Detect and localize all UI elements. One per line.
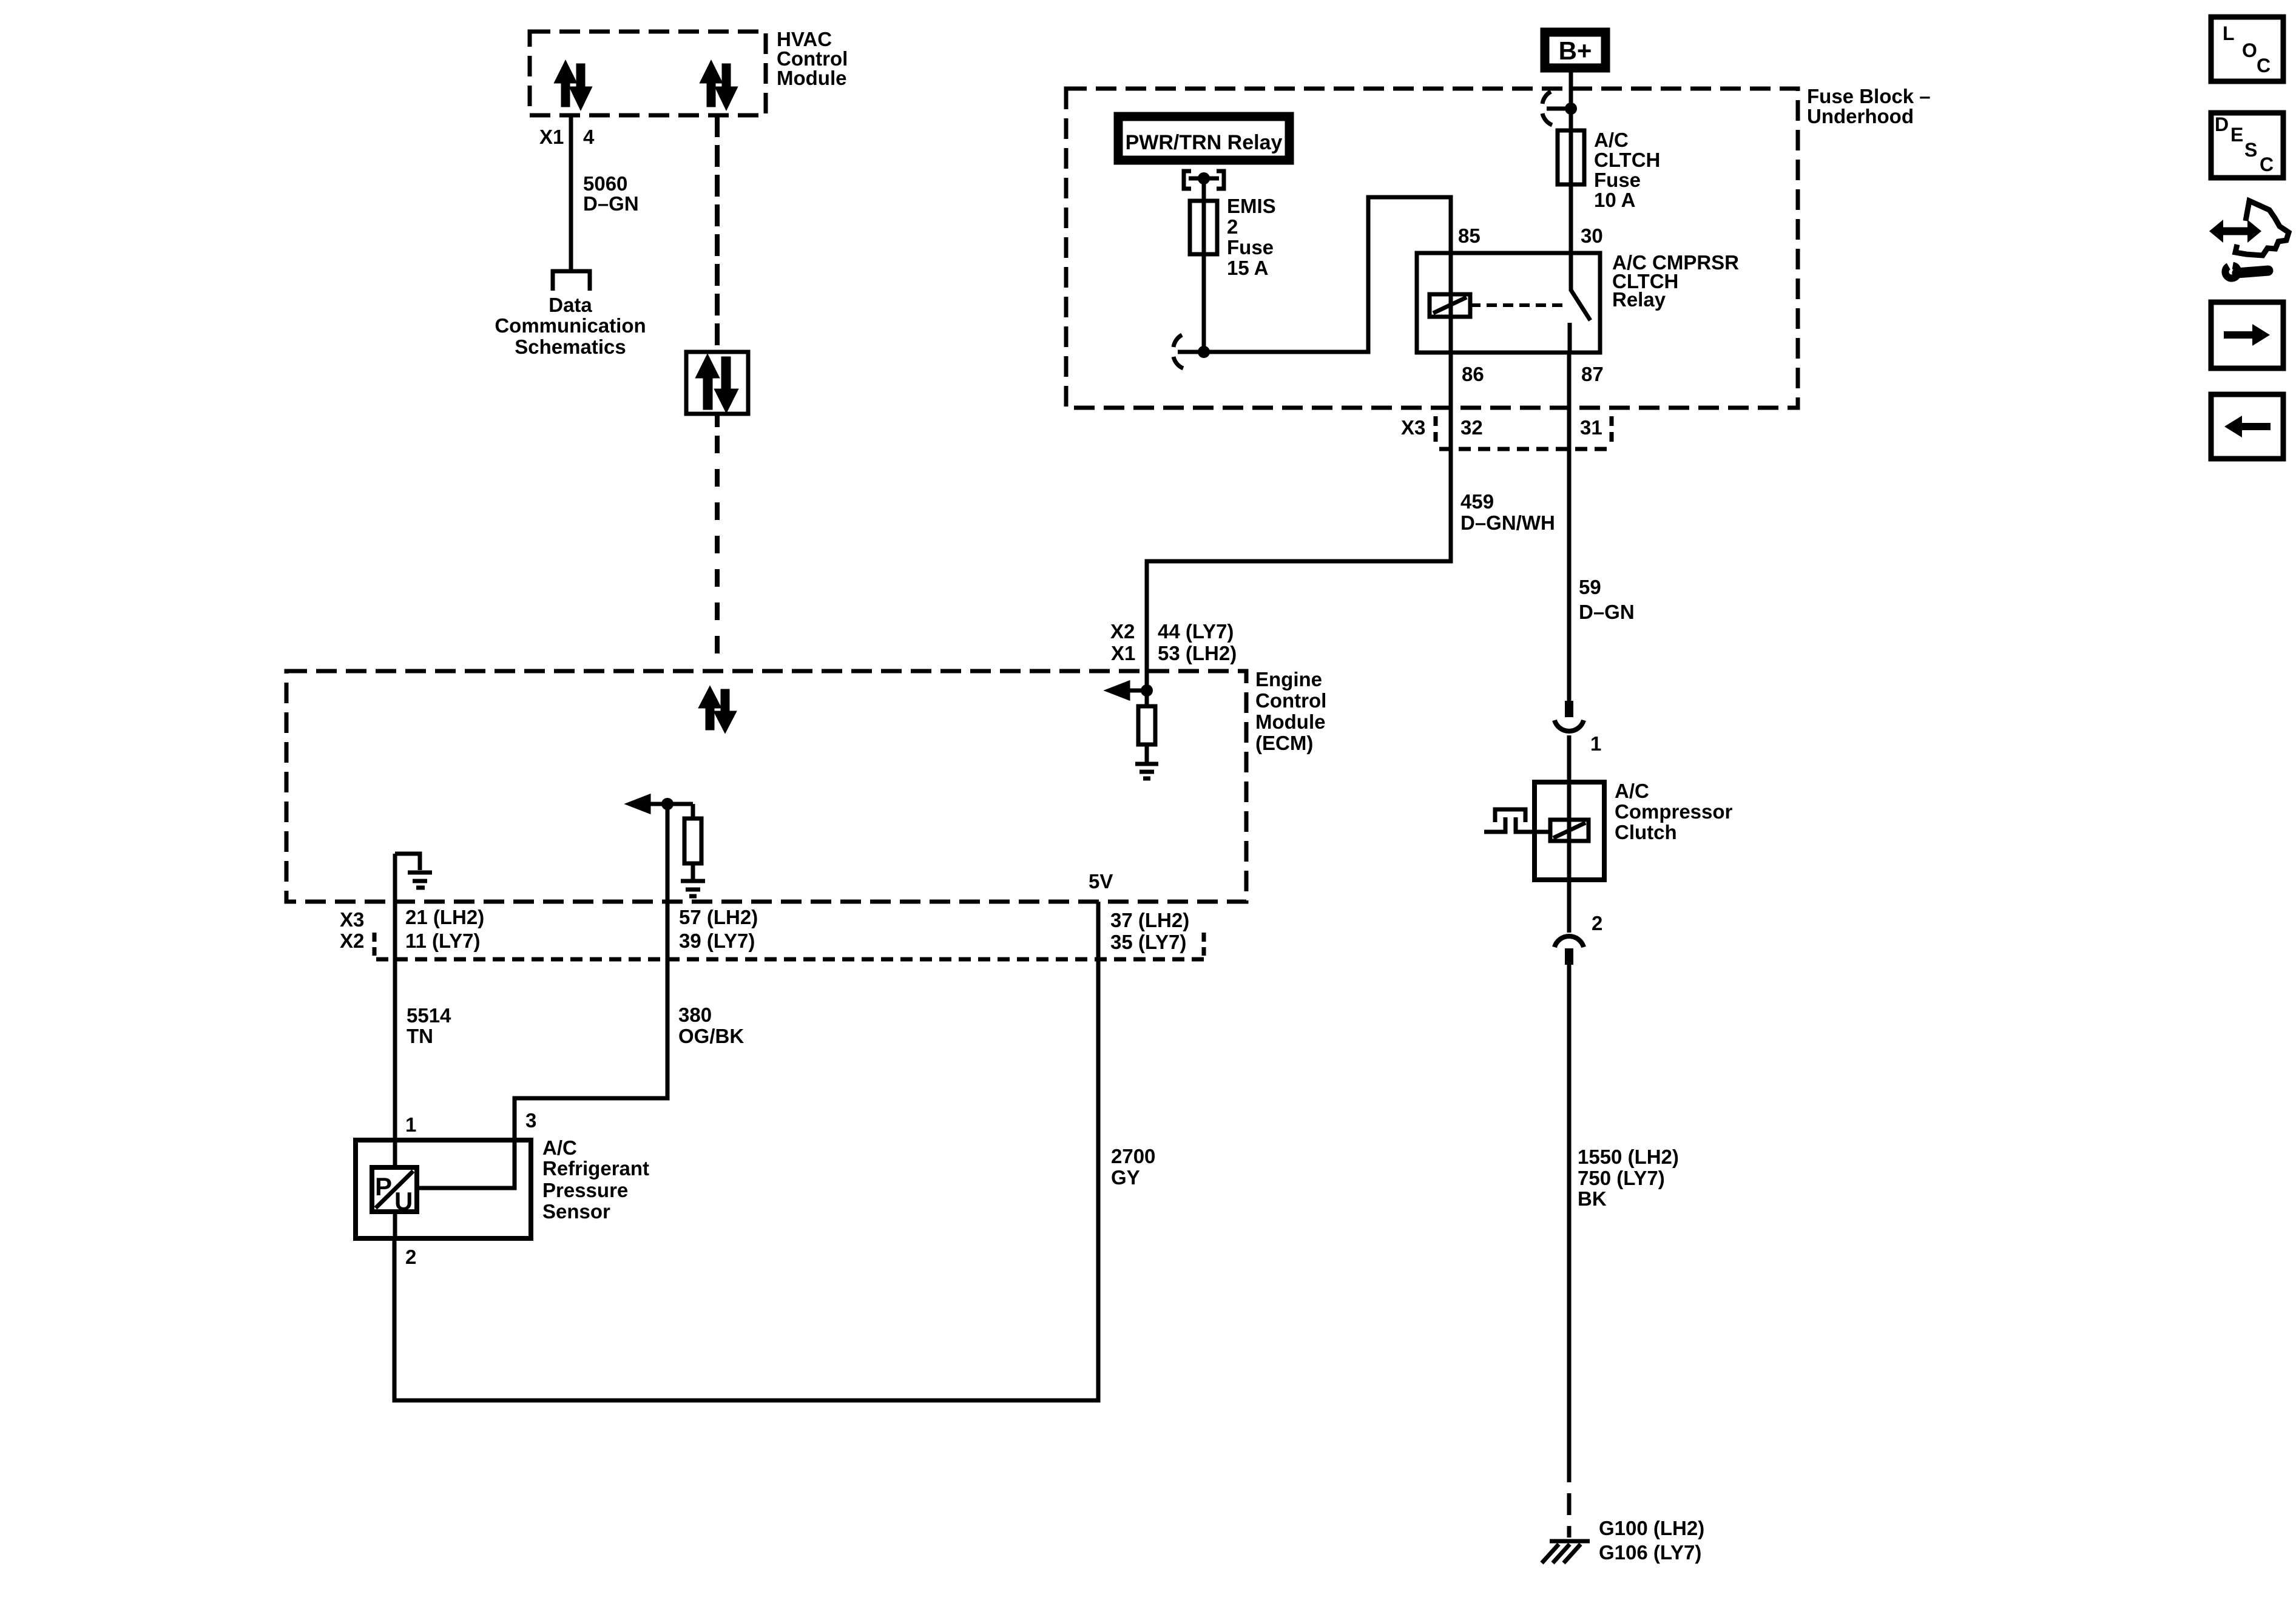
A/C CMPRSR CLTCH Relay box <box>1417 253 1600 353</box>
svg-text:GY: GY <box>1111 1166 1140 1189</box>
Fuse Block - Underhood box <box>1066 89 1798 408</box>
svg-text:BK: BK <box>1578 1187 1607 1210</box>
svg-text:21 (LH2): 21 (LH2) <box>405 906 484 928</box>
fuse A/C CLTCH 10A <box>1558 130 1584 184</box>
svg-text:OG/BK: OG/BK <box>678 1025 744 1047</box>
ECM input arrow and junction (pin 57/39) <box>637 802 693 806</box>
svg-text:2700: 2700 <box>1111 1145 1155 1167</box>
svg-text:D: D <box>2215 113 2229 135</box>
icon previous page box <box>2211 394 2283 459</box>
svg-text:Pressure: Pressure <box>542 1179 628 1201</box>
svg-text:31: 31 <box>1580 416 1602 439</box>
svg-text:32: 32 <box>1460 416 1483 439</box>
icon LOC box <box>2211 17 2283 81</box>
wire 5060 (HVAC X1-4 to data link) <box>569 115 573 269</box>
svg-text:459: 459 <box>1460 490 1494 513</box>
serial data bus (dashed, HVAC to splice box) <box>715 115 720 352</box>
wire B+ to A/C CLTCH fuse and pin 30 <box>1569 72 1573 253</box>
svg-text:Sensor: Sensor <box>542 1200 610 1223</box>
fuse EMIS 2 15A <box>1190 201 1217 254</box>
svg-text:Clutch: Clutch <box>1615 821 1677 843</box>
icon harness double arrow <box>2221 228 2250 235</box>
serial data bus (dashed, splice box to ECM) <box>715 414 720 427</box>
svg-text:1550 (LH2): 1550 (LH2) <box>1578 1146 1679 1168</box>
Engine Control Module box <box>286 671 1246 902</box>
fuse holder terminals (EMIS 2 fuse) <box>1184 171 1191 189</box>
PWR/TRN Relay box <box>1118 116 1289 160</box>
svg-text:Relay: Relay <box>1612 288 1666 311</box>
svg-text:G100 (LH2): G100 (LH2) <box>1599 1517 1704 1539</box>
svg-text:2: 2 <box>1227 215 1238 238</box>
svg-text:A/C: A/C <box>1594 129 1629 151</box>
svg-text:L: L <box>2223 22 2235 44</box>
svg-text:Compressor: Compressor <box>1615 800 1733 823</box>
svg-text:X1: X1 <box>539 126 564 148</box>
relay actuating link (dashed) <box>1470 303 1563 307</box>
wire PWR/TRN relay through EMIS fuse <box>1202 178 1206 352</box>
wire EMIS fuse to relay coil pin 85 <box>1204 197 1451 352</box>
pressure transducer P/U <box>372 1167 417 1212</box>
ECM internal ground (pin 57/39 path) <box>681 879 705 883</box>
svg-text:44 (LY7): 44 (LY7) <box>1158 620 1234 643</box>
svg-text:PWR/TRN Relay: PWR/TRN Relay <box>1126 131 1283 154</box>
svg-text:2: 2 <box>405 1246 416 1268</box>
serial data splice box <box>686 352 748 414</box>
relay coil (pin 85 to 86) <box>1449 253 1453 353</box>
svg-text:Schematics: Schematics <box>515 336 626 358</box>
ECM internal ground (pin 44/53 path) <box>1135 762 1158 766</box>
serial data arrow pair (HVAC right) <box>703 64 735 106</box>
svg-text:750 (LY7): 750 (LY7) <box>1578 1167 1665 1189</box>
svg-text:P: P <box>375 1172 392 1201</box>
ECM bias resistor (pin 57/39) <box>691 804 695 819</box>
svg-text:Fuse: Fuse <box>1227 236 1274 258</box>
svg-text:35 (LY7): 35 (LY7) <box>1110 931 1186 953</box>
svg-text:A/C: A/C <box>542 1136 577 1159</box>
svg-text:Module: Module <box>777 67 846 89</box>
svg-text:30: 30 <box>1581 224 1603 247</box>
icon wrench <box>2237 271 2268 273</box>
svg-text:D–GN: D–GN <box>583 192 639 215</box>
compressor in-line connector pin 2 <box>1567 880 1572 933</box>
svg-text:CLTCH: CLTCH <box>1594 149 1660 171</box>
svg-text:10 A: 10 A <box>1594 189 1635 211</box>
ECM pull-up resistor (pin 44/53) <box>1145 690 1149 706</box>
svg-text:11 (LY7): 11 (LY7) <box>405 930 481 952</box>
B+ terminal <box>1545 32 1606 68</box>
svg-text:B+: B+ <box>1559 36 1592 65</box>
serial data arrow pair (ECM) <box>701 690 734 729</box>
svg-text:380: 380 <box>678 1004 712 1026</box>
svg-text:Module: Module <box>1255 711 1325 733</box>
wire 5514 TN (ECM 21/11 to sensor pin 1) <box>393 854 397 1140</box>
ECM internal ground (pin 21/11 path) <box>395 854 420 870</box>
svg-text:O: O <box>2242 39 2257 61</box>
svg-text:C: C <box>2260 154 2274 175</box>
svg-text:87: 87 <box>1581 363 1604 385</box>
svg-text:Data: Data <box>549 294 592 316</box>
off-page reference bracket (Data Communication Schematics) <box>553 271 590 291</box>
svg-text:Fuse: Fuse <box>1594 169 1641 191</box>
HVAC Control Module box <box>530 32 766 115</box>
svg-text:D–GN/WH: D–GN/WH <box>1460 511 1555 534</box>
relay switch blade (pin 30 to 87) <box>1571 253 1590 320</box>
svg-text:57 (LH2): 57 (LH2) <box>679 906 758 928</box>
svg-text:D–GN: D–GN <box>1579 601 1635 623</box>
svg-text:5060: 5060 <box>583 172 627 195</box>
svg-text:Engine: Engine <box>1255 668 1322 690</box>
ground-side in-line connector (EMIS branch) <box>1178 350 1204 354</box>
icon next page box <box>2211 302 2283 368</box>
svg-text:G106 (LY7): G106 (LY7) <box>1599 1541 1701 1564</box>
wire 380 OG/BK (ECM 57/39 to sensor pin 3) <box>515 804 667 1140</box>
svg-text:X3: X3 <box>340 908 364 931</box>
A/C Refrigerant Pressure Sensor box <box>356 1140 531 1238</box>
svg-text:X1: X1 <box>1111 642 1135 664</box>
battery feed in-line connector <box>1547 107 1571 111</box>
svg-text:5V: 5V <box>1089 870 1113 893</box>
A/C Compressor Clutch box <box>1535 782 1604 880</box>
svg-text:37 (LH2): 37 (LH2) <box>1110 909 1189 931</box>
icon DESC box <box>2211 113 2283 178</box>
svg-text:2: 2 <box>1592 912 1602 934</box>
clutch mechanical coupling symbol <box>1484 817 1505 832</box>
svg-text:59: 59 <box>1579 576 1601 598</box>
svg-text:X2: X2 <box>1110 620 1135 643</box>
wire 59 D-GN (relay 87 to compressor pin 1) <box>1567 353 1572 701</box>
svg-text:5514: 5514 <box>407 1004 451 1027</box>
X3 connector (fuse block outputs) <box>1434 416 1438 443</box>
serial data arrow pair (HVAC left) <box>557 64 589 106</box>
svg-text:Fuse Block –: Fuse Block – <box>1807 85 1931 107</box>
svg-text:X3: X3 <box>1401 416 1425 439</box>
svg-text:(ECM): (ECM) <box>1255 732 1313 754</box>
ECM input arrow and junction (pin 44/53) <box>1116 689 1147 693</box>
svg-text:A/C: A/C <box>1615 780 1649 802</box>
svg-text:3: 3 <box>525 1109 536 1132</box>
svg-text:TN: TN <box>407 1025 433 1047</box>
svg-text:15 A: 15 A <box>1227 257 1268 279</box>
wire 2700 GY (ECM 37/35 to sensor pin 2) <box>394 902 1098 1400</box>
compressor clutch coil <box>1567 782 1572 880</box>
svg-text:Underhood: Underhood <box>1807 105 1914 127</box>
svg-text:86: 86 <box>1462 363 1484 385</box>
connector dash marks right <box>1202 933 1206 956</box>
svg-text:1: 1 <box>405 1113 416 1136</box>
svg-text:U: U <box>394 1187 413 1215</box>
svg-text:X2: X2 <box>340 930 364 952</box>
svg-text:53 (LH2): 53 (LH2) <box>1158 642 1237 664</box>
svg-text:Refrigerant: Refrigerant <box>542 1157 649 1180</box>
sensor internal wires (pins 1,2) <box>393 1140 397 1167</box>
svg-text:Communication: Communication <box>495 314 646 337</box>
svg-text:39 (LY7): 39 (LY7) <box>679 930 755 952</box>
svg-text:85: 85 <box>1458 224 1481 247</box>
svg-text:4: 4 <box>583 126 595 148</box>
svg-text:S: S <box>2244 139 2257 161</box>
svg-text:E: E <box>2230 124 2243 146</box>
sensor internal wire (pin 3) <box>417 1140 515 1188</box>
compressor in-line connector pin 1 <box>1565 701 1573 717</box>
svg-text:1: 1 <box>1590 732 1601 755</box>
connector dash marks X3/X2 left <box>373 933 377 956</box>
svg-text:EMIS: EMIS <box>1227 195 1276 217</box>
svg-text:Control: Control <box>1255 689 1326 712</box>
icon harness outline <box>2246 201 2289 255</box>
wire 459 D-GN/WH (relay 86 to ECM 44/53) <box>1449 353 1453 561</box>
ECM connector strip bottom (dashed) <box>376 957 1206 962</box>
svg-text:C: C <box>2257 55 2271 76</box>
wire 1550/750 BK (compressor pin 2 to ground) <box>1567 965 1572 1460</box>
ground G100/G106 <box>1550 1539 1590 1544</box>
